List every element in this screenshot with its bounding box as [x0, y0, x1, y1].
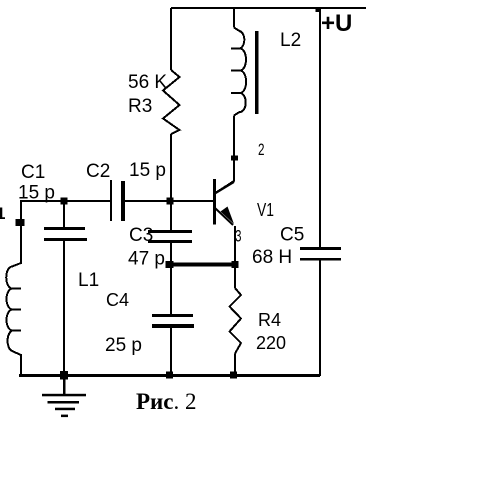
- svg-text:C2: C2: [86, 161, 110, 182]
- svg-text:3: 3: [235, 227, 242, 246]
- capacitor C4 plates: [152, 314, 193, 317]
- wire C3 to C4 segment: [170, 243, 172, 314]
- wire collector lead: [216, 116, 234, 193]
- svg-text:2: 2: [258, 140, 265, 159]
- svg-text:C1: C1: [21, 162, 45, 183]
- node dot C1 bottom rail: [60, 371, 68, 380]
- wire R4 top lead: [234, 264, 236, 288]
- node dot R4 bottom rail: [230, 372, 237, 379]
- capacitor C2 plates: [110, 180, 112, 221]
- svg-text:220: 220: [256, 333, 286, 353]
- svg-text:C3: C3: [129, 225, 153, 246]
- wire top +U rail: [171, 7, 366, 9]
- wire input node horizontal: [20, 200, 110, 202]
- wire R3 branch top lead: [170, 8, 172, 70]
- svg-text:C4: C4: [106, 290, 129, 310]
- ground: [42, 376, 86, 417]
- wire right +U rail upper segment: [319, 8, 321, 247]
- svg-text:47 p: 47 p: [128, 249, 165, 270]
- capacitor C5 plates: [300, 247, 341, 250]
- node dot input top junction: [61, 198, 68, 205]
- svg-text:V1: V1: [257, 200, 274, 220]
- inductor L2 coil: [234, 28, 246, 116]
- wire C4 to bottom rail: [170, 328, 172, 376]
- svg-text:C5: C5: [280, 225, 304, 246]
- transistor V1: [213, 179, 234, 225]
- node dot collector pin 2: [231, 156, 238, 161]
- wire emitter node thick wire: [169, 263, 236, 267]
- svg-text:25 p: 25 p: [105, 335, 142, 356]
- svg-text:15 p: 15 p: [18, 183, 55, 204]
- node dot top right rail junction: [316, 7, 321, 12]
- svg-text:L1: L1: [78, 270, 99, 291]
- inductor L1: [6, 201, 21, 375]
- wire C2 right plate to junction: [125, 200, 170, 202]
- svg-text:68 H: 68 H: [252, 247, 292, 268]
- capacitor C1 plates: [44, 227, 85, 230]
- node 1 dot: [16, 219, 25, 226]
- wire right rail lower segment: [319, 260, 321, 376]
- wire emitter lead vertical: [234, 226, 236, 263]
- resistor R4: [230, 288, 242, 354]
- capacitor C3 plates: [148, 230, 192, 233]
- node dot C4 bottom rail: [166, 372, 173, 379]
- svg-text:Рис. 2: Рис. 2: [136, 389, 197, 414]
- svg-text:L2: L2: [280, 30, 301, 51]
- svg-text:R3: R3: [128, 96, 152, 117]
- svg-text:+U: +U: [321, 10, 352, 37]
- wire C1 branch bottom lead: [63, 241, 65, 376]
- node junction dot base node: [167, 198, 174, 205]
- wire R4 bottom lead: [234, 354, 236, 377]
- wire C1 branch top lead: [63, 201, 65, 227]
- node dot C3-C4 junction: [166, 261, 174, 268]
- svg-text:1: 1: [0, 204, 5, 223]
- inductor L2 core bar: [255, 31, 259, 114]
- svg-text:15 p: 15 p: [129, 160, 166, 181]
- node dot emitter junction: [232, 261, 239, 268]
- svg-text:56 K: 56 K: [128, 72, 167, 93]
- wire R3 bottom to base node: [170, 134, 172, 230]
- svg-text:R4: R4: [258, 310, 281, 330]
- wire L2 top lead: [233, 8, 235, 28]
- wire base lead: [170, 200, 213, 202]
- wire bottom ground rail: [19, 374, 320, 377]
- resistor R3: [163, 70, 180, 134]
